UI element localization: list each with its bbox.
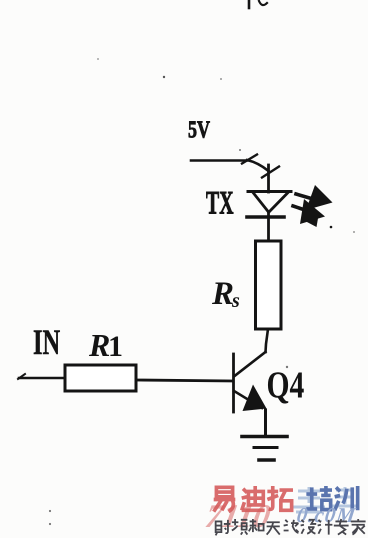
resistor Rs body [256, 241, 282, 329]
svg-text:0.c0M: 0.c0M [295, 503, 358, 527]
transistor Q4 collector lead [235, 352, 266, 376]
watermark slogan char JI (gray) [318, 520, 333, 535]
transistor Q4 emitter lead with arrow [234, 385, 267, 412]
ground bar 2 [254, 446, 277, 449]
watermark slogan char SHE2 (gray) [301, 520, 317, 534]
scan speckle dots [49, 58, 355, 525]
watermark slogan char XIAN (gray) [284, 520, 299, 533]
watermark slogan char TIAN (gray) [267, 522, 280, 534]
label Q4 [267, 365, 305, 406]
wire: emitter to ground [264, 410, 267, 436]
watermark slogan char SHE (gray) [216, 520, 231, 536]
svg-text:1: 1 [108, 330, 123, 363]
watermark slogan char ZHUAN (gray) [334, 519, 349, 535]
wire: 5V supply horizontal [191, 159, 247, 162]
svg-text:s: s [231, 290, 240, 312]
svg-text:R: R [211, 276, 234, 312]
transistor Q4 base bar [232, 354, 235, 412]
watermark red italic numerals overlay [203, 498, 274, 535]
watermark slogan char PIN (gray) [232, 519, 248, 535]
watermark char TUO (red) [267, 486, 293, 510]
watermark slogan char HE (gray) [249, 519, 264, 532]
tick at input end [18, 374, 25, 379]
label TX [206, 184, 234, 220]
tick mark on supply wire [242, 155, 257, 164]
svg-text:5V: 5V [188, 116, 211, 143]
watermark char YI (red) [214, 487, 236, 511]
wire: input lead [19, 377, 64, 380]
resistor R1 body [65, 365, 136, 391]
ground bar 3 [259, 458, 274, 462]
watermark char PEI (blue) [306, 486, 332, 510]
watermark char XUN (blue) [335, 486, 358, 510]
wire: Rs to collector [266, 329, 269, 352]
watermark char DI (red) [242, 486, 265, 510]
tick mark at bend [262, 167, 279, 178]
svg-text:TX: TX [206, 184, 234, 220]
watermark blue italic .com overlay [295, 503, 358, 527]
watermark slogan char JIA (gray) [351, 519, 366, 535]
LED emission arrow 1 [296, 185, 333, 210]
svg-text:R: R [88, 327, 110, 363]
LED TX anode bar [248, 190, 291, 193]
LED TX triangle right side [269, 193, 288, 213]
LED emission arrow 2 [293, 199, 332, 228]
wire: LED anode vertical [267, 165, 270, 192]
label IN [33, 322, 60, 362]
ground bar 1 [242, 435, 287, 439]
svg-text:Q4: Q4 [267, 365, 305, 406]
svg-text:IN: IN [33, 322, 60, 362]
watermark ghost chars (light blue) behind logo [293, 487, 358, 512]
wire: LED cathode to Rs [267, 212, 270, 241]
LED TX cathode bar [247, 215, 284, 219]
label 5V (supply) [188, 116, 211, 143]
cropped caption fragment "(b)" at top edge [249, 0, 267, 8]
LED TX triangle left side [253, 193, 269, 213]
wire: R1 to base [136, 380, 233, 381]
label R1 [88, 327, 123, 363]
label Rs [211, 276, 240, 312]
wire: bend toward LED anode [247, 160, 269, 171]
